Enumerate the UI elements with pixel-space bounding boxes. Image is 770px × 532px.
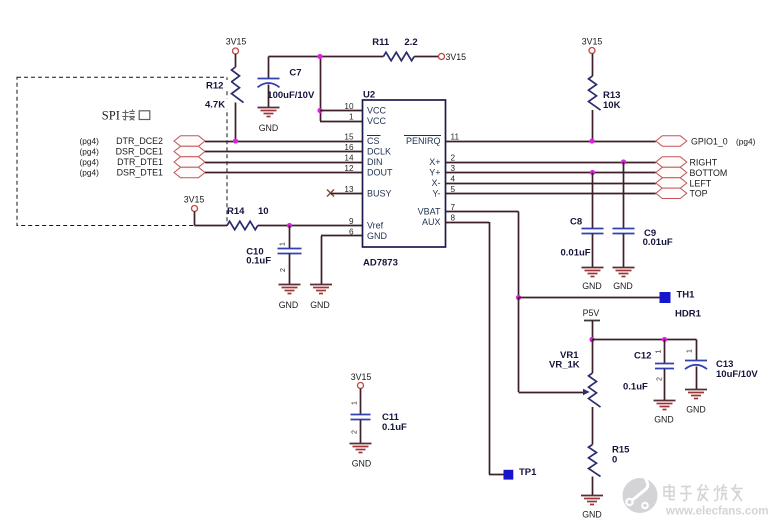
- svg-text:1: 1: [280, 242, 287, 246]
- capacitor C7: [258, 57, 280, 108]
- svg-text:X-: X-: [432, 178, 441, 188]
- svg-text:GND: GND: [582, 510, 602, 520]
- svg-text:PENIRQ: PENIRQ: [406, 136, 441, 146]
- test point TH1: [660, 292, 671, 303]
- svg-text:100uF/10V: 100uF/10V: [267, 90, 315, 101]
- svg-text:GND: GND: [582, 281, 602, 291]
- port connector BOTTOM: [656, 167, 687, 177]
- svg-text:10K: 10K: [603, 100, 621, 111]
- svg-text:9: 9: [349, 217, 354, 226]
- label C13: [716, 359, 758, 380]
- resistor R12: [232, 67, 244, 141]
- svg-text:TP1: TP1: [519, 467, 537, 478]
- resistor R15: [589, 445, 601, 496]
- svg-text:GPIO1_0: GPIO1_0: [691, 137, 728, 147]
- svg-text:2: 2: [657, 377, 664, 381]
- svg-text:BOTTOM: BOTTOM: [690, 168, 728, 178]
- wire DSR_DCE1 to U2: [205, 151, 363, 153]
- test point TP1: [504, 470, 514, 480]
- node label LEFT: [690, 178, 712, 188]
- label TP1: [519, 467, 537, 478]
- svg-text:(pg4): (pg4): [736, 137, 756, 147]
- junction node R12/CS: [233, 138, 238, 143]
- port connector LEFT: [656, 178, 687, 188]
- svg-text:(pg4): (pg4): [80, 168, 100, 178]
- junction node C8/Y+: [590, 170, 595, 175]
- SPI interface dashed box: [17, 77, 227, 225]
- svg-text:(pg4): (pg4): [80, 147, 100, 157]
- label R12 4.7K: [203, 80, 231, 111]
- svg-text:0.01uF: 0.01uF: [643, 237, 673, 248]
- svg-text:(pg4): (pg4): [80, 157, 100, 167]
- SPI interface title text: [102, 108, 150, 122]
- port connector DSR_DTE1: [174, 167, 205, 177]
- power P5V: [583, 308, 600, 340]
- port connector RIGHT: [656, 157, 687, 167]
- svg-text:BUSY: BUSY: [367, 189, 392, 199]
- ground C13: [685, 390, 707, 415]
- svg-text:R12: R12: [206, 81, 223, 92]
- label TH1: [677, 290, 696, 301]
- wire to pin1: [320, 121, 363, 123]
- svg-text:0.1uF: 0.1uF: [382, 422, 407, 433]
- svg-text:Y+: Y+: [429, 168, 440, 178]
- U2 left pin names: [367, 106, 393, 241]
- svg-text:RIGHT: RIGHT: [690, 157, 718, 167]
- svg-text:DCLK: DCLK: [367, 147, 391, 157]
- svg-text:P5V: P5V: [583, 308, 600, 318]
- wire to TH1: [519, 297, 660, 299]
- svg-text:2: 2: [451, 154, 456, 163]
- svg-text:8: 8: [451, 214, 456, 223]
- junction node pin10: [317, 108, 322, 113]
- svg-text:5: 5: [451, 185, 456, 194]
- wire LEFT net: [446, 183, 656, 185]
- svg-text:GND: GND: [352, 459, 372, 469]
- node (pg4) DTR_DCE2 label: [80, 136, 164, 146]
- ground C8: [582, 268, 604, 292]
- svg-text:GND: GND: [686, 405, 706, 415]
- svg-text:(pg4): (pg4): [80, 136, 100, 146]
- svg-text:R11: R11: [372, 37, 390, 48]
- svg-text:GND: GND: [613, 281, 633, 291]
- power 3V15 (R14): [184, 195, 227, 226]
- label R15 0: [612, 445, 630, 466]
- resistor R13: [589, 76, 601, 141]
- svg-text:1: 1: [349, 113, 354, 122]
- svg-text:10: 10: [344, 102, 354, 111]
- svg-text:C7: C7: [289, 67, 301, 78]
- U2 left pin numbers: [344, 102, 354, 236]
- capacitor C11: [351, 415, 371, 444]
- svg-text:VCC: VCC: [367, 106, 387, 116]
- svg-text:15: 15: [344, 133, 354, 142]
- svg-text:SPI: SPI: [102, 108, 120, 122]
- junction node P5V/VR1: [589, 337, 594, 342]
- svg-text:C8: C8: [570, 217, 582, 228]
- svg-text:0.1uF: 0.1uF: [246, 256, 271, 267]
- ground U2 pin6: [310, 285, 332, 311]
- svg-text:DTR_DTE1: DTR_DTE1: [117, 157, 163, 167]
- junction node C12: [662, 337, 667, 342]
- wire VBAT: [446, 212, 519, 298]
- VR1 wiper arrow: [584, 390, 589, 395]
- svg-text:3V15: 3V15: [582, 37, 603, 47]
- wire P5V to C12 C13: [592, 339, 697, 341]
- ground C7: [258, 108, 280, 134]
- wire DSR_DTE1 to U2: [205, 172, 363, 174]
- node label RIGHT: [690, 157, 718, 167]
- svg-text:DIN: DIN: [367, 157, 383, 167]
- svg-text:13: 13: [344, 185, 354, 194]
- svg-text:3V15: 3V15: [184, 195, 205, 205]
- label AD7873: [363, 258, 398, 269]
- junction node Vref/C10: [287, 223, 292, 228]
- svg-text:X+: X+: [429, 157, 440, 167]
- svg-text:14: 14: [344, 154, 354, 163]
- label C8: [561, 217, 591, 259]
- svg-text:4.7K: 4.7K: [205, 100, 225, 111]
- pin marks C11: [352, 401, 359, 434]
- junction node VCC/C7: [317, 54, 322, 59]
- label R13 10K: [603, 90, 621, 111]
- ground C10: [279, 285, 301, 311]
- svg-text:R14: R14: [227, 206, 245, 217]
- svg-text:2: 2: [280, 268, 287, 272]
- svg-text:AUX: AUX: [422, 217, 441, 227]
- svg-text:GND: GND: [654, 415, 674, 425]
- svg-text:GND: GND: [279, 300, 299, 310]
- svg-text:C12: C12: [634, 351, 651, 362]
- label C7: [267, 67, 315, 100]
- port connector DTR_DTE1: [174, 157, 205, 167]
- svg-text:VR_1K: VR_1K: [549, 359, 580, 370]
- label GPIO1_0 (pg4): [691, 137, 756, 147]
- svg-text:16: 16: [344, 143, 354, 152]
- node label BOTTOM: [690, 168, 728, 178]
- power 3V15 (C11): [351, 372, 372, 415]
- svg-text:1: 1: [656, 349, 663, 353]
- ground C12: [654, 401, 676, 425]
- node (pg4) DSR_DCE1 label: [80, 147, 164, 157]
- potentiometer VR1: [589, 340, 601, 445]
- ground R15: [581, 496, 603, 520]
- label VR1 VR_1K: [549, 350, 580, 370]
- svg-text:DTR_DCE2: DTR_DCE2: [116, 136, 163, 146]
- label C11: [382, 412, 407, 433]
- wire VCC top: [269, 57, 384, 122]
- label HDR1: [675, 309, 702, 320]
- svg-text:LEFT: LEFT: [690, 178, 712, 188]
- wire RIGHT net: [446, 162, 656, 164]
- pin marks C12: [656, 349, 664, 381]
- wire VBAT to VR1 wiper: [519, 298, 585, 393]
- svg-text:Vref: Vref: [367, 221, 384, 231]
- svg-text:TOP: TOP: [690, 189, 708, 199]
- resistor R11: [383, 52, 438, 60]
- svg-text:10uF/10V: 10uF/10V: [716, 369, 758, 380]
- capacitor C12: [655, 340, 674, 401]
- svg-text:DOUT: DOUT: [367, 168, 393, 178]
- capacitor C10: [278, 226, 302, 285]
- svg-text:GND: GND: [259, 123, 279, 133]
- svg-text:1: 1: [352, 401, 359, 405]
- svg-text:4: 4: [451, 175, 456, 184]
- watermark elecfans logo: [623, 474, 769, 518]
- svg-text:DSR_DCE1: DSR_DCE1: [116, 147, 163, 157]
- svg-text:2.2: 2.2: [404, 37, 417, 48]
- wire DTR_DCE2 to U2: [205, 141, 363, 143]
- svg-text:6: 6: [349, 227, 354, 236]
- port connector DSR_DCE1: [174, 146, 205, 156]
- junction node VBAT/TH1: [516, 295, 521, 300]
- svg-text:U2: U2: [363, 90, 375, 101]
- pin marks C10: [280, 242, 288, 272]
- wire PENIRQ net: [446, 141, 656, 143]
- svg-text:1: 1: [687, 349, 694, 353]
- power 3V15 (R13): [582, 37, 603, 77]
- node label TOP: [690, 189, 708, 199]
- svg-text:Y-: Y-: [432, 189, 440, 199]
- junction node R13/PENIRQ: [589, 138, 594, 143]
- capacitor C8: [582, 173, 604, 268]
- wire BOTTOM net: [446, 172, 656, 174]
- svg-text:TH1: TH1: [677, 290, 696, 301]
- svg-text:VCC: VCC: [367, 116, 387, 126]
- ground C11: [350, 444, 372, 469]
- resistor R14: [227, 221, 363, 229]
- svg-text:0.01uF: 0.01uF: [561, 247, 591, 258]
- wire TOP net: [446, 193, 656, 195]
- svg-text:HDR1: HDR1: [675, 309, 702, 320]
- no-connect X on BUSY: [327, 190, 363, 197]
- svg-text:3V15: 3V15: [226, 37, 247, 47]
- svg-text:GND: GND: [310, 300, 330, 310]
- wire to pin10: [320, 110, 363, 112]
- svg-text:VBAT: VBAT: [418, 207, 441, 217]
- svg-text:CS: CS: [367, 136, 380, 146]
- svg-text:3V15: 3V15: [446, 52, 467, 62]
- power 3V15 (R12 top): [226, 37, 247, 68]
- svg-text:10: 10: [258, 206, 269, 217]
- label C9: [643, 228, 673, 248]
- svg-text:AD7873: AD7873: [363, 258, 398, 269]
- power 3V15 (R11 right): [439, 52, 467, 62]
- U2 right pin numbers: [451, 133, 460, 223]
- wire U2 GND pin6: [321, 236, 363, 285]
- label C12: [623, 351, 651, 393]
- node (pg4) DSR_DTE1 label: [80, 168, 164, 178]
- label R14 10: [227, 206, 269, 217]
- label R11 2.2: [372, 37, 417, 48]
- op-amp U2 AD7873 body: [363, 100, 446, 247]
- svg-text:GND: GND: [367, 231, 388, 241]
- label U2: [363, 90, 375, 101]
- wire DTR_DTE1 to U2: [205, 162, 363, 164]
- svg-text:12: 12: [344, 164, 354, 173]
- svg-text:3V15: 3V15: [351, 372, 372, 382]
- svg-text:0.1uF: 0.1uF: [623, 382, 648, 393]
- ground C9: [613, 268, 635, 292]
- svg-text:www.elecfans.com: www.elecfans.com: [665, 506, 768, 518]
- junction node C9/X+: [621, 159, 626, 164]
- wire AUX to TP1: [446, 222, 504, 475]
- capacitor C13: [685, 340, 707, 390]
- port connector TOP: [656, 188, 687, 198]
- port connector DTR_DCE2: [174, 136, 205, 146]
- pin mark C13: [687, 349, 694, 353]
- svg-text:2: 2: [352, 430, 359, 434]
- U2 right pin names: [404, 136, 441, 228]
- node (pg4) DTR_DTE1 label: [80, 157, 164, 167]
- label C10: [246, 247, 271, 267]
- svg-text:DSR_DTE1: DSR_DTE1: [117, 168, 163, 178]
- svg-text:0: 0: [612, 454, 617, 465]
- port connector GPIO1_0: [656, 136, 687, 146]
- svg-text:11: 11: [451, 133, 460, 142]
- capacitor C9: [613, 162, 635, 267]
